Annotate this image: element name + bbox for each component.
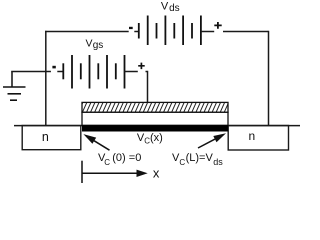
wire top-left horizontal (Vds negative lead) [45, 31, 139, 33]
svg-text:=0: =0 [129, 152, 142, 164]
plus sign (Vds positive terminal) [214, 22, 221, 29]
svg-text:(L)=V: (L)=V [186, 152, 214, 164]
svg-text:ds: ds [169, 3, 180, 14]
plus sign (Vgs positive terminal) [138, 63, 145, 70]
ground [3, 72, 26, 101]
battery Vgs [63, 55, 124, 89]
oxide (white gap) [82, 112, 228, 125]
svg-text:C: C [104, 158, 110, 167]
x axis origin tick [81, 161, 83, 183]
substrate top surface line [14, 125, 300, 127]
battery Vds [139, 16, 201, 46]
svg-text:n: n [42, 130, 49, 144]
wire ground to Vgs negative [11, 71, 63, 73]
x axis arrow [82, 170, 148, 177]
gate electrode (hatched) [78, 102, 233, 114]
label Vc(L)=Vds [172, 152, 223, 167]
svg-text:x: x [153, 166, 160, 181]
n region right (drain) [228, 126, 288, 151]
wire left vertical (source to top loop) [45, 31, 47, 126]
label Vc(0)=0 [98, 152, 141, 167]
minus sign (Vds negative terminal) [129, 27, 133, 29]
arrow to channel left end [83, 134, 109, 150]
minus sign (Vgs negative terminal) [52, 66, 55, 69]
svg-text:C: C [179, 158, 185, 167]
svg-text:V: V [86, 37, 93, 49]
label Vds [161, 0, 180, 14]
label Vgs [86, 37, 104, 51]
svg-text:(x): (x) [150, 132, 163, 144]
wire Vgs positive to gate [125, 72, 148, 103]
label Vc(x) [137, 132, 163, 145]
svg-text:gs: gs [93, 40, 104, 51]
svg-text:V: V [161, 0, 169, 12]
wire top-right horizontal (Vds positive lead) [201, 31, 269, 33]
channel (inversion layer, thick black bar) [82, 125, 228, 131]
svg-text:(0): (0) [112, 152, 125, 164]
label n (right) [249, 129, 256, 143]
svg-text:ds: ds [213, 157, 223, 167]
n region left (source) [22, 126, 81, 150]
label n (left) [42, 130, 49, 144]
wire right vertical (drain) [268, 31, 270, 126]
arrow to channel right end [198, 133, 226, 148]
svg-text:n: n [249, 129, 256, 143]
label x [153, 166, 160, 181]
